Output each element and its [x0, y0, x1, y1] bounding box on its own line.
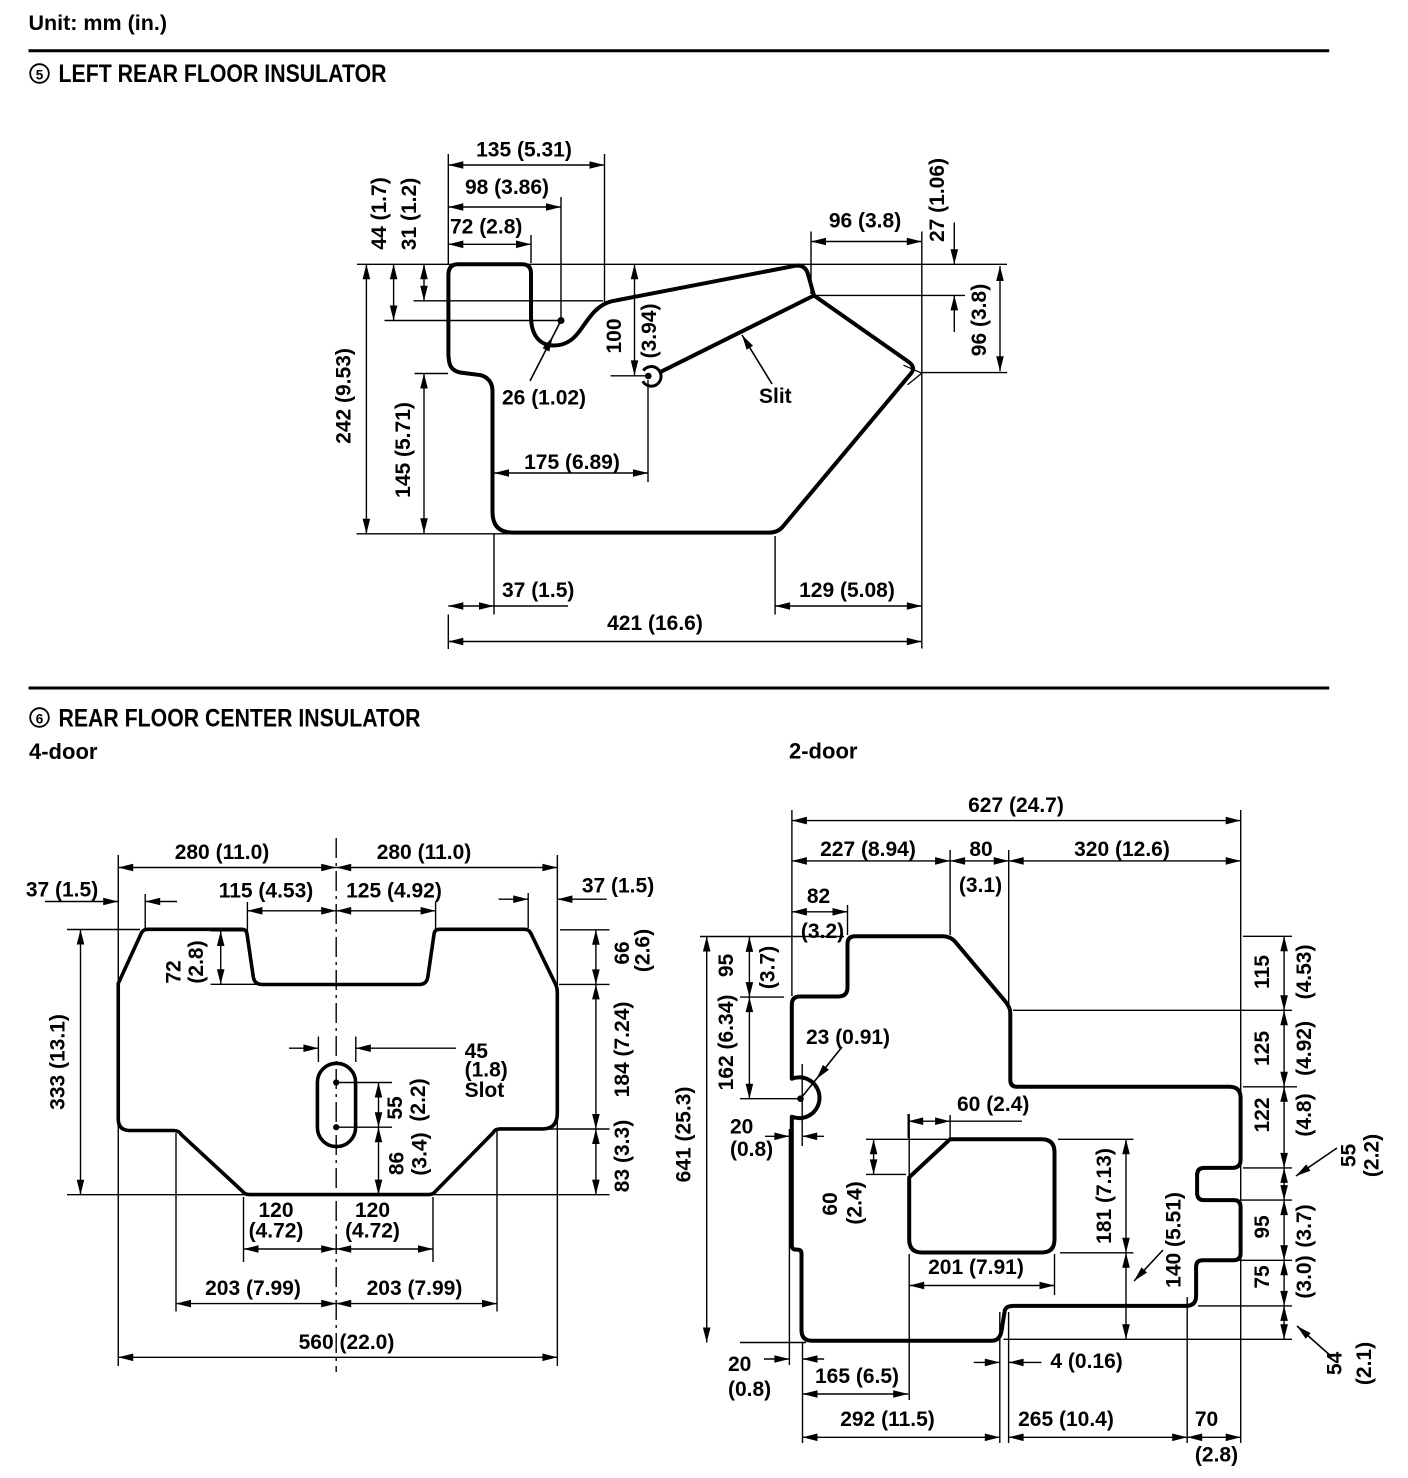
heading LEFT REAR FLOOR INSULATOR	[59, 60, 387, 88]
dimension 135 (5.31)	[448, 138, 604, 169]
extension line x950 hole	[949, 1115, 951, 1138]
extension line x145	[144, 894, 146, 929]
dimension 55 (2.2) notch	[1280, 1134, 1383, 1200]
extension line x176 lower	[175, 1133, 177, 1312]
svg-text:96 (3.8): 96 (3.8)	[968, 284, 991, 356]
extension line x494	[493, 534, 495, 615]
svg-text:72: 72	[163, 960, 186, 983]
svg-text:37 (1.5): 37 (1.5)	[582, 875, 654, 898]
extension line x243 lower	[243, 1197, 245, 1262]
svg-text:(4.72): (4.72)	[249, 1220, 304, 1243]
dimension 265 (10.4)	[1009, 1408, 1188, 1441]
dimension 421 (16.6)	[448, 612, 922, 649]
svg-text:181 (7.13): 181 (7.13)	[1093, 1148, 1116, 1244]
extension line bottom edge sides	[67, 1194, 610, 1196]
dimension 80 (3.1)	[950, 838, 1009, 897]
svg-text:27 (1.06): 27 (1.06)	[926, 158, 949, 242]
extension line bump center vertical	[801, 1064, 803, 1146]
svg-text:280 (11.0): 280 (11.0)	[175, 841, 270, 864]
section marker circled 5	[30, 64, 49, 83]
svg-text:Slit: Slit	[759, 385, 792, 408]
dimension 165 (6.5)	[803, 1365, 909, 1398]
dimension 31 (1.2)	[398, 178, 603, 301]
svg-text:129 (5.08): 129 (5.08)	[799, 579, 895, 602]
svg-text:86: 86	[386, 1152, 409, 1175]
svg-text:20: 20	[730, 1116, 753, 1139]
svg-text:(4.53): (4.53)	[1293, 945, 1316, 1000]
dimension 280 (11.0) left	[118, 841, 336, 871]
svg-text:Unit: mm (in.): Unit: mm (in.)	[29, 11, 168, 35]
extension lines slot 45	[318, 1037, 355, 1063]
extension line x528	[527, 893, 529, 928]
svg-text:(2.1): (2.1)	[1353, 1342, 1376, 1385]
dimension 86 (3.4)	[375, 1127, 432, 1194]
dimension 95 (3.7) notch	[1251, 1200, 1316, 1260]
dimension 96 (3.8) top	[811, 210, 922, 295]
extension line x789 lower	[788, 1129, 790, 1365]
slot center marks	[334, 1080, 392, 1130]
center line 4-door	[335, 838, 337, 1372]
dimension 72 (2.8)	[163, 931, 225, 984]
svg-text:2-door: 2-door	[789, 739, 858, 764]
dimension 184 (7.24)	[592, 984, 634, 1129]
title text Unit: mm (in.)	[29, 11, 168, 35]
dimension 72 (2.8)	[448, 216, 531, 249]
dimension 641 (25.3)	[673, 937, 711, 1343]
svg-text:(3.94): (3.94)	[638, 304, 661, 359]
svg-text:201 (7.91): 201 (7.91)	[928, 1256, 1024, 1279]
dimension 280 (11.0) right	[336, 841, 557, 871]
svg-text:(4.8): (4.8)	[1293, 1093, 1316, 1136]
svg-text:60: 60	[819, 1192, 842, 1215]
heading REAR FLOOR CENTER INSULATOR	[59, 705, 421, 733]
extension line x775	[774, 536, 776, 615]
extension line y1339	[1004, 1338, 1292, 1340]
extension line bottom left	[357, 533, 510, 535]
svg-text:265 (10.4): 265 (10.4)	[1018, 1408, 1114, 1431]
svg-text:203 (7.99): 203 (7.99)	[367, 1277, 463, 1300]
svg-text:115 (4.53): 115 (4.53)	[219, 880, 314, 903]
section marker circled 6	[30, 708, 49, 727]
svg-text:641 (25.3): 641 (25.3)	[673, 1087, 696, 1183]
svg-text:55: 55	[384, 1096, 407, 1120]
dimension 115 (4.53) right	[1251, 936, 1316, 1010]
svg-text:140 (5.51): 140 (5.51)	[1163, 1192, 1186, 1288]
dimension 203 (7.99) right	[336, 1277, 497, 1307]
dimension 20 (0.8) upper	[730, 1116, 824, 1162]
dimension 181 (7.13)	[1093, 1139, 1130, 1253]
svg-text:(3.7): (3.7)	[757, 946, 780, 989]
svg-text:333 (13.1): 333 (13.1)	[47, 1014, 70, 1110]
dimension 66 (2.6)	[592, 929, 654, 984]
extension line hole left x909	[908, 1114, 910, 1400]
horizontal rule top	[29, 49, 1330, 52]
extension line x950	[949, 850, 951, 935]
dimension 75 (3.0)	[1251, 1255, 1316, 1305]
dimension 333 (13.1)	[47, 930, 85, 1195]
svg-text:98 (3.86): 98 (3.86)	[465, 176, 549, 199]
extension line x802 lower	[802, 1342, 804, 1443]
leader 23 (0.91) radius callout	[801, 1026, 891, 1099]
extension line left edge up	[447, 154, 449, 264]
extension line y1343 bottom left	[740, 1342, 806, 1344]
svg-text:37 (1.5): 37 (1.5)	[26, 879, 98, 902]
dimension 120 (4.72) right	[336, 1199, 433, 1253]
svg-text:20: 20	[728, 1353, 751, 1376]
svg-text:(2.4): (2.4)	[844, 1181, 867, 1224]
dimension 292 (11.5)	[803, 1408, 1000, 1441]
extension line right x1240	[1240, 810, 1242, 1443]
svg-text:292 (11.5): 292 (11.5)	[840, 1408, 935, 1431]
svg-text:REAR FLOOR CENTER INSULATOR: REAR FLOOR CENTER INSULATOR	[59, 705, 421, 733]
svg-text:145 (5.71): 145 (5.71)	[392, 402, 415, 498]
extension line y1087	[1243, 1086, 1297, 1088]
svg-text:165 (6.5): 165 (6.5)	[815, 1365, 899, 1388]
svg-text:242 (9.53): 242 (9.53)	[333, 348, 356, 444]
svg-text:(4.72): (4.72)	[345, 1220, 400, 1243]
slit cut line	[643, 296, 814, 387]
dimension 55 (2.2)	[375, 1078, 430, 1127]
svg-text:162 (6.34): 162 (6.34)	[715, 995, 738, 1091]
dimension 175 (6.89)	[494, 380, 648, 482]
dimension 95 (3.7) left	[715, 937, 780, 997]
svg-text:(0.8): (0.8)	[728, 1378, 771, 1401]
svg-text:125 (4.92): 125 (4.92)	[346, 880, 442, 903]
svg-text:83 (3.3): 83 (3.3)	[611, 1120, 634, 1192]
svg-text:6: 6	[36, 711, 44, 726]
svg-text:60 (2.4): 60 (2.4)	[957, 1093, 1029, 1116]
extension line x497 lower	[496, 1131, 498, 1312]
svg-text:54: 54	[1324, 1352, 1347, 1376]
extension line top y936 left	[700, 936, 844, 938]
extension line x436	[435, 902, 437, 931]
part outline: rear floor center insulator 2-door	[792, 936, 1241, 1341]
dimension 44 (1.7)	[368, 177, 561, 320]
extension line top edge level	[357, 263, 1007, 265]
leader 26 (1.02) radius callout	[502, 321, 586, 410]
extension line x848	[847, 905, 849, 935]
svg-text:(3.4): (3.4)	[409, 1132, 432, 1175]
dimension 125 (4.92) right	[1251, 1010, 1316, 1087]
svg-text:(3.7): (3.7)	[1293, 1204, 1316, 1247]
dimension 54 (2.1)	[1280, 1306, 1376, 1385]
dimension 145 (5.71)	[392, 374, 448, 534]
dimension 201 (7.91)	[909, 1256, 1054, 1289]
svg-text:184 (7.24): 184 (7.24)	[611, 1002, 634, 1098]
svg-text:80: 80	[969, 838, 992, 861]
svg-text:100: 100	[603, 318, 626, 353]
horizontal rule middle	[29, 687, 1330, 690]
subheading 4-door	[29, 739, 98, 764]
dimension 4 (0.16)	[974, 1350, 1123, 1373]
svg-text:95: 95	[715, 954, 738, 978]
svg-text:175 (6.89): 175 (6.89)	[524, 451, 620, 474]
extension line right x922	[921, 232, 923, 649]
extension line x605	[604, 154, 606, 303]
svg-text:320 (12.6): 320 (12.6)	[1074, 838, 1170, 861]
svg-text:44 (1.7): 44 (1.7)	[368, 177, 391, 249]
svg-text:(2.8): (2.8)	[185, 940, 208, 983]
svg-text:(2.6): (2.6)	[632, 929, 655, 972]
extension line hole right x1054	[1054, 1254, 1056, 1295]
extension line 184 bottom	[548, 1128, 610, 1130]
svg-text:560 (22.0): 560 (22.0)	[299, 1331, 395, 1354]
extension lines 60 left	[866, 1139, 947, 1174]
svg-text:(0.8): (0.8)	[730, 1138, 773, 1161]
dimension 27 (1.06)	[926, 158, 958, 332]
svg-text:280 (11.0): 280 (11.0)	[377, 841, 472, 864]
dimension 120 (4.72) left	[244, 1199, 337, 1253]
bump radius center dot	[740, 1096, 803, 1102]
extension line left x118	[117, 855, 119, 1366]
svg-text:627 (24.7): 627 (24.7)	[968, 794, 1064, 817]
dimension 560 (22.0)	[118, 1331, 557, 1361]
svg-text:(2.8): (2.8)	[1195, 1444, 1238, 1467]
dimension 98 (3.86)	[448, 176, 561, 211]
dimension 125 (4.92)	[336, 880, 442, 915]
extension line top 333	[67, 929, 140, 931]
dimension 20 (0.8) lower	[728, 1353, 824, 1401]
svg-text:96 (3.8): 96 (3.8)	[829, 210, 901, 233]
extension lines 181	[1058, 1139, 1134, 1253]
extension lines right notches	[1198, 1168, 1292, 1306]
svg-text:203 (7.99): 203 (7.99)	[205, 1277, 301, 1300]
svg-text:23 (0.91): 23 (0.91)	[806, 1026, 890, 1049]
dimension 115 (4.53)	[219, 880, 336, 915]
dimension 96 (3.8) right	[922, 266, 1007, 373]
svg-text:82: 82	[807, 885, 830, 908]
dimension 37 (1.5) bottom	[448, 579, 574, 610]
dimension 203 (7.99) left	[176, 1277, 336, 1307]
svg-text:26 (1.02): 26 (1.02)	[502, 387, 586, 410]
extension lines 66 dim	[559, 930, 610, 985]
svg-text:(3.0): (3.0)	[1293, 1255, 1316, 1298]
extension line left x792 top	[791, 810, 793, 996]
svg-text:5: 5	[36, 67, 44, 82]
extension line x1187	[1186, 1297, 1188, 1443]
dimension 242 (9.53)	[333, 264, 371, 534]
dimension 60 (2.4) top	[908, 1093, 1029, 1138]
extension line y1010	[1013, 1009, 1292, 1011]
dimension 82 (3.2)	[792, 885, 848, 943]
extension lines bottom step	[1000, 1312, 1009, 1443]
dimension 83 (3.3)	[592, 1120, 634, 1195]
extension line y295	[815, 294, 966, 296]
extension line x433 lower	[432, 1197, 434, 1262]
svg-text:115: 115	[1251, 955, 1274, 989]
svg-text:70: 70	[1195, 1408, 1218, 1431]
subheading 2-door	[789, 739, 858, 764]
svg-text:(2.2): (2.2)	[1361, 1134, 1384, 1177]
svg-text:95: 95	[1251, 1215, 1274, 1239]
part outline: left rear floor insulator	[448, 264, 913, 532]
svg-text:Slot: Slot	[465, 1079, 505, 1102]
extension lines 72 dim	[211, 931, 261, 985]
extension line y997 left	[740, 996, 784, 998]
dimension 37 (1.5) left	[26, 879, 177, 906]
svg-text:72 (2.8): 72 (2.8)	[450, 216, 522, 239]
dimension 70 (2.8)	[1187, 1408, 1241, 1467]
svg-text:(2.2): (2.2)	[407, 1078, 430, 1121]
dimension 320 (12.6)	[1009, 838, 1241, 865]
svg-text:135 (5.31): 135 (5.31)	[476, 138, 572, 161]
extension line top y936 right	[1243, 935, 1292, 937]
part outline: rear floor center insulator 4-door	[118, 929, 557, 1194]
svg-text:125: 125	[1251, 1031, 1274, 1066]
svg-text:(3.1): (3.1)	[959, 874, 1002, 897]
svg-text:55: 55	[1338, 1144, 1361, 1168]
extension line x532	[530, 235, 532, 263]
svg-text:227 (8.94): 227 (8.94)	[820, 838, 916, 861]
extension line right x557	[556, 855, 558, 1366]
dimension 129 (5.08)	[775, 579, 922, 610]
svg-text:LEFT REAR FLOOR INSULATOR: LEFT REAR FLOOR INSULATOR	[59, 60, 387, 88]
svg-text:4-door: 4-door	[29, 739, 98, 764]
leader Slit callout	[742, 335, 792, 408]
dimension 37 (1.5) right	[499, 875, 655, 904]
dimension 227 (8.94)	[792, 838, 950, 865]
extension line x247	[246, 902, 248, 931]
svg-text:37 (1.5): 37 (1.5)	[502, 579, 574, 602]
svg-text:(3.2): (3.2)	[801, 920, 844, 943]
svg-text:122: 122	[1251, 1097, 1274, 1132]
extension line x561 with radius center dot	[558, 197, 564, 324]
dimension 140 (5.51)	[1122, 1192, 1185, 1339]
dimension 60 (2.4) side	[819, 1139, 877, 1224]
dimension 100 (3.94)	[603, 264, 661, 376]
svg-text:(4.92): (4.92)	[1293, 1021, 1316, 1076]
svg-text:4 (0.16): 4 (0.16)	[1050, 1350, 1122, 1373]
svg-text:75: 75	[1251, 1265, 1274, 1289]
dimension 162 (6.34)	[715, 995, 753, 1099]
slot cutout	[317, 1063, 355, 1146]
dimension 627 (24.7)	[792, 794, 1241, 824]
vertex slit notch triangle	[904, 365, 922, 385]
hole cutout 2-door	[909, 1139, 1054, 1252]
svg-text:31 (1.2): 31 (1.2)	[398, 178, 421, 250]
dimension 122 (4.8)	[1251, 1087, 1316, 1168]
dimension 45 (1.8) slot	[289, 1040, 508, 1102]
svg-text:421 (16.6): 421 (16.6)	[607, 612, 703, 635]
extension line x1008 top	[1008, 850, 1010, 1006]
